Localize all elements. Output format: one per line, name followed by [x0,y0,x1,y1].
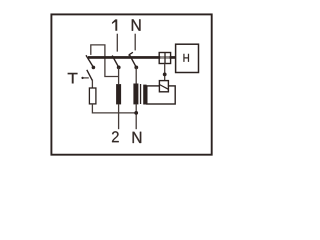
label terminal 2 [112,131,119,142]
label terminal N bottom [133,132,142,143]
test contact upper blade [86,55,93,67]
test push contact blade [87,70,93,81]
wire winding L to terminal 2 [118,104,120,129]
resistor (test) [89,88,96,104]
test bypass wire (staple over linkage) [91,45,119,77]
wire pole 1 to CT winding [118,67,120,84]
pole N pivot dot [134,66,138,70]
wire pole N to CT winding [135,67,137,83]
junction dot relay [163,73,167,77]
mechanical linkage bar [88,56,176,59]
wire armature to trip relay [164,64,166,81]
wire from terminal 1 [116,34,118,52]
label terminal 1 [112,19,117,30]
relay sensing element square [159,81,168,92]
pole 1 pivot dot [117,66,121,70]
test button actuator [81,77,83,79]
wire from terminal N top [134,34,136,51]
junction dot N / test return [134,111,138,115]
wire winding N to terminal N bottom [135,104,137,129]
pole N fixed contact hook [129,52,133,56]
label terminal N top [132,19,141,30]
enclosure border [51,14,211,154]
bar dimmed inside armature box [160,56,169,59]
CT winding L [116,84,121,104]
wire blade to resistor [91,80,93,89]
pole 1 contact blade [112,56,119,68]
CT core bar [140,84,141,104]
test contact pivot dot [92,66,96,70]
pole N contact blade [130,55,137,67]
CT winding N [133,84,138,105]
trip relay armature box with cross [159,53,170,64]
label test button T [68,73,78,84]
relay pole plate thick [143,85,146,105]
indicator box H [176,44,199,72]
wire resistor to N junction [92,104,136,113]
trip relay coil box [147,86,175,104]
relay sensing element diagonal [159,85,168,90]
